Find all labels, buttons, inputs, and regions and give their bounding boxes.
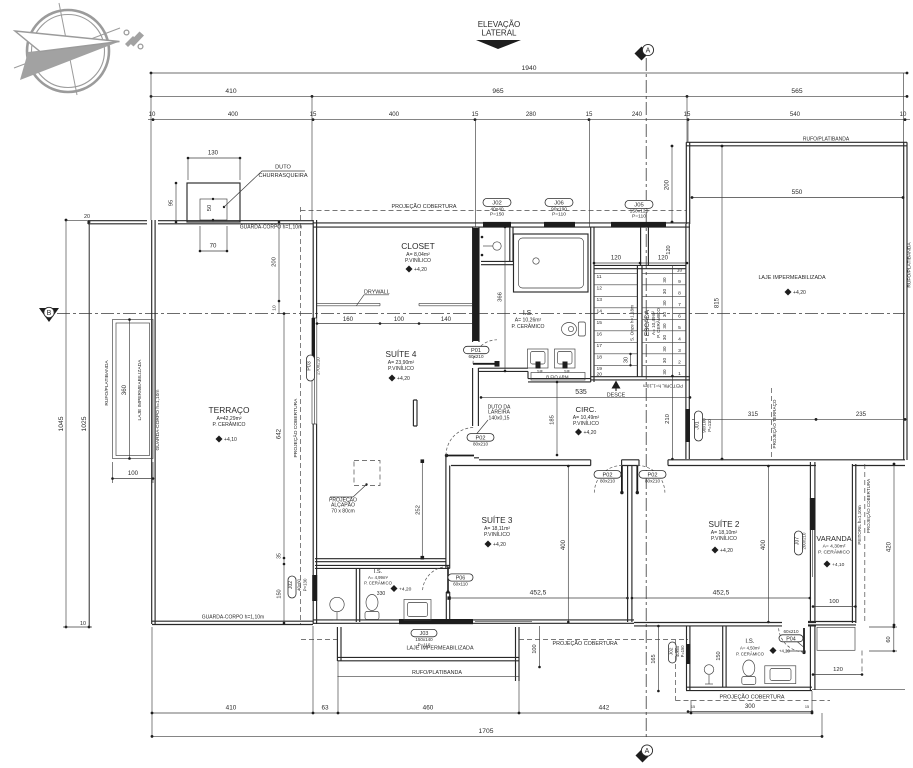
window tag J02	[483, 198, 511, 217]
svg-text:442: 442	[599, 704, 610, 711]
svg-text:P=150: P=150	[680, 645, 685, 658]
svg-text:+4,20: +4,20	[720, 548, 733, 554]
door P02 circ-suite3 alcove: leaf, hinge, arc	[445, 428, 474, 458]
terrace left wall	[152, 220, 155, 624]
svg-text:95: 95	[169, 199, 175, 206]
closet room label	[401, 241, 435, 273]
suite 2 room label	[709, 519, 740, 554]
svg-text:1705: 1705	[479, 728, 494, 735]
bottom IS left wall with window	[687, 626, 690, 690]
terrace top parapet wall	[88, 221, 313, 224]
svg-text:410: 410	[226, 704, 237, 711]
dim 300 bottom IS	[687, 703, 814, 713]
svg-text:35: 35	[277, 553, 283, 559]
svg-text:S. Onze h=1,18m: S. Onze h=1,18m	[630, 305, 635, 341]
svg-text:LAJE IMPERMEABILIZADA: LAJE IMPERMEABILIZADA	[406, 646, 474, 652]
svg-text:565: 565	[791, 88, 802, 95]
bottom IS partition shower	[723, 626, 726, 687]
sink bottom IS	[765, 666, 796, 684]
svg-text:200x210: 200x210	[802, 532, 807, 549]
bottom dim row 1705	[151, 728, 824, 738]
toilet IS suite3	[365, 595, 379, 620]
svg-text:PEITORIL h=1,10m: PEITORIL h=1,10m	[857, 505, 862, 544]
escada labels rotated	[630, 305, 662, 341]
dim 100 below wall	[532, 626, 541, 668]
svg-text:18: 18	[597, 355, 603, 361]
svg-text:J01: J01	[695, 421, 701, 429]
svg-text:P=150: P=150	[490, 212, 505, 218]
dim 70 chimney	[199, 226, 229, 252]
window J06 slab	[544, 222, 575, 228]
svg-text:PROJEÇÃO COBERTURA: PROJEÇÃO COBERTURA	[553, 640, 618, 647]
alcove bottom wall y=562-565	[315, 559, 450, 569]
window J01 on stair wall	[685, 409, 712, 442]
svg-text:452,5: 452,5	[530, 589, 547, 596]
svg-text:90x100: 90x100	[702, 418, 707, 433]
svg-text:RUFO/PLATIBANDA: RUFO/PLATIBANDA	[907, 242, 913, 288]
svg-text:+4,20: +4,20	[493, 542, 506, 548]
stair treads right flight	[642, 273, 686, 365]
svg-text:30: 30	[662, 369, 667, 375]
IS suite3 wall below door	[446, 592, 449, 622]
stair left wall	[591, 227, 594, 382]
svg-text:+4,20: +4,20	[414, 267, 427, 273]
dim 185 circ	[550, 381, 559, 457]
svg-text:CIRC.: CIRC.	[576, 405, 597, 414]
svg-text:A= 10,26m²: A= 10,26m²	[515, 318, 542, 324]
suite 3 room label	[482, 515, 513, 548]
svg-text:DUTO: DUTO	[275, 165, 291, 171]
svg-text:16: 16	[597, 332, 603, 338]
bottom IS right wall	[810, 626, 815, 690]
svg-text:9: 9	[678, 279, 681, 285]
svg-text:210: 210	[665, 413, 671, 424]
svg-text:+4,10: +4,10	[832, 562, 845, 568]
dim 130 chimney	[187, 150, 242, 181]
door P06 arc suite3-IS	[423, 567, 450, 594]
door tag P03 rotated	[307, 355, 321, 381]
I.S. west wall with P01 opening	[473, 227, 479, 426]
svg-text:100: 100	[532, 644, 538, 653]
svg-text:P02: P02	[648, 472, 658, 478]
dim 100 strip bottom	[111, 462, 154, 483]
svg-text:7: 7	[678, 302, 681, 308]
terrace bottom parapet wall	[152, 621, 313, 624]
svg-text:I.S.: I.S.	[523, 310, 533, 317]
svg-text:30: 30	[662, 358, 667, 364]
svg-text:+4,10: +4,10	[224, 437, 237, 443]
svg-text:A= 18,10m²: A= 18,10m²	[711, 530, 738, 536]
svg-text:452,5: 452,5	[713, 589, 730, 596]
stair tread numbers right	[677, 267, 683, 377]
svg-text:LAJE IMPERMEABILIZADA: LAJE IMPERMEABILIZADA	[137, 359, 143, 421]
suite2-suite3 divider wall	[628, 466, 632, 622]
svg-text:CLOSET: CLOSET	[401, 241, 435, 251]
svg-text:RUFO/PLATIBANDA: RUFO/PLATIBANDA	[803, 137, 850, 143]
svg-text:P=110: P=110	[632, 214, 646, 220]
svg-text:P.VINÍLICO: P.VINÍLICO	[711, 535, 737, 542]
central wall y=459-466 segments	[451, 458, 905, 466]
bottom extension lines	[152, 626, 822, 738]
svg-text:P. CERÂMICO: P. CERÂMICO	[655, 308, 661, 338]
window J05 slab	[611, 222, 666, 228]
drywall label + leader	[357, 290, 390, 306]
svg-text:PEITORIL h=1,10m: PEITORIL h=1,10m	[643, 384, 683, 389]
svg-text:400: 400	[389, 111, 400, 118]
svg-text:160: 160	[343, 316, 354, 323]
svg-text:J02: J02	[288, 581, 294, 589]
window J02 slab	[483, 222, 511, 228]
svg-text:965: 965	[492, 88, 503, 95]
svg-text:12: 12	[597, 286, 603, 292]
dim 452,5 suite3	[447, 589, 628, 600]
alçapão dashed box	[329, 461, 380, 515]
door tag P06	[448, 574, 473, 587]
svg-text:40x40: 40x40	[490, 206, 504, 212]
svg-text:J02: J02	[668, 647, 674, 655]
svg-text:A= 4,30m²: A= 4,30m²	[823, 544, 846, 550]
right roof platibanda rect	[686, 142, 907, 460]
svg-text:P=110: P=110	[707, 419, 712, 432]
svg-text:80x210: 80x210	[600, 479, 616, 484]
svg-text:10: 10	[80, 621, 86, 627]
svg-text:J02: J02	[492, 200, 502, 206]
svg-text:3: 3	[678, 348, 681, 354]
svg-text:30: 30	[662, 289, 667, 295]
dim 60 varanda	[869, 626, 897, 653]
svg-text:P.VINÍLICO: P.VINÍLICO	[405, 257, 431, 264]
svg-text:SUÍTE 2: SUÍTE 2	[709, 519, 740, 529]
svg-text:20: 20	[84, 214, 90, 220]
svg-text:280: 280	[526, 111, 537, 118]
svg-text:PROJEÇÃO COBERTURA: PROJEÇÃO COBERTURA	[865, 479, 871, 533]
stair tread numbers left	[597, 274, 603, 377]
svg-text:J06: J06	[554, 200, 564, 206]
svg-text:+4,20: +4,20	[397, 376, 410, 382]
svg-text:252: 252	[415, 505, 421, 515]
projeção terraço dashed + label	[771, 388, 777, 459]
svg-text:A: A	[646, 47, 651, 54]
stair dim 30 small	[624, 353, 632, 367]
dim 100 varanda	[812, 599, 857, 608]
varanda room label	[816, 534, 851, 568]
svg-text:200: 200	[272, 256, 278, 267]
svg-text:P. CERÂMICO: P. CERÂMICO	[212, 421, 245, 428]
suite2 right wall with J07 window	[810, 462, 815, 622]
stair bottom wall	[591, 377, 690, 380]
svg-text:RUFO/PLATIBANDA: RUFO/PLATIBANDA	[412, 670, 462, 676]
svg-text:120: 120	[833, 667, 844, 673]
left roof edge line	[89, 221, 91, 627]
step box below varanda	[817, 627, 855, 650]
svg-text:4: 4	[678, 336, 681, 342]
window tag J05	[625, 200, 653, 219]
projeção cobertura dashed left	[292, 207, 301, 624]
window tag J07 rotated	[795, 531, 807, 555]
svg-text:120: 120	[611, 255, 622, 262]
svg-text:150: 150	[277, 589, 283, 598]
svg-text:400: 400	[228, 111, 239, 118]
svg-text:P.VINÍLICO: P.VINÍLICO	[573, 420, 599, 427]
window tag J06	[545, 198, 573, 217]
laje impermeabilizada strip left	[113, 320, 154, 459]
svg-text:20: 20	[597, 372, 603, 378]
dim 642/15/150 terrace right	[276, 312, 286, 624]
svg-text:1940: 1940	[522, 65, 537, 72]
svg-text:815: 815	[714, 297, 721, 308]
window tag J03	[411, 629, 437, 647]
bottom IS bottom wall	[686, 687, 812, 690]
svg-text:30: 30	[624, 357, 630, 363]
svg-text:GUARDA-CORPO h=1,10m: GUARDA-CORPO h=1,10m	[202, 615, 264, 621]
svg-text:150: 150	[716, 651, 722, 660]
fireplace duct wall	[413, 400, 417, 426]
svg-text:300: 300	[745, 703, 756, 710]
svg-text:15: 15	[691, 705, 695, 709]
svg-text:P. CERÂMICO: P. CERÂMICO	[736, 651, 765, 656]
svg-text:30: 30	[662, 300, 667, 306]
svg-text:I.S.: I.S.	[745, 638, 754, 645]
svg-text:80x210: 80x210	[645, 479, 661, 484]
door P01 leaf and arc	[473, 340, 500, 367]
dim 400 suite3	[560, 465, 570, 624]
IS suite3 room label	[364, 569, 412, 597]
svg-text:VARANDA: VARANDA	[816, 534, 851, 543]
shower box walls	[481, 227, 513, 265]
svg-text:200: 200	[664, 179, 671, 190]
section marker A bottom	[636, 745, 653, 763]
svg-text:410: 410	[225, 88, 236, 95]
svg-text:10: 10	[272, 305, 278, 311]
svg-text:RUFO/PLATIBANDA: RUFO/PLATIBANDA	[104, 360, 110, 406]
svg-text:15: 15	[597, 320, 603, 326]
svg-text:ESCADA: ESCADA	[644, 309, 651, 336]
dim 400 suite2	[760, 465, 770, 624]
svg-text:120: 120	[666, 245, 672, 254]
svg-text:P. CERÂMICO: P. CERÂMICO	[818, 548, 850, 555]
bottom IS suite2: top wall with P04 opening	[634, 623, 816, 626]
svg-text:P=130: P=130	[303, 578, 308, 591]
svg-text:P.VINÍLICO: P.VINÍLICO	[484, 531, 510, 538]
double sinks IS top	[528, 349, 576, 374]
stair dim 120 120	[593, 245, 689, 264]
leader duto churrasqueira	[223, 165, 308, 209]
double doors P02 suite3/suite2: leaves and arcs	[594, 466, 665, 495]
svg-text:SIF: SIF	[564, 370, 571, 374]
door tag P02 suite3	[594, 471, 621, 484]
svg-text:400: 400	[560, 539, 567, 550]
svg-text:80x210: 80x210	[473, 442, 489, 447]
svg-text:460: 460	[423, 704, 434, 711]
svg-text:J07: J07	[795, 537, 801, 545]
svg-text:235: 235	[856, 411, 867, 418]
top dimension row 3: 10 400 15 400 15 280 15 240 15 540 10	[148, 111, 910, 121]
top dimension row 1: 1940	[150, 65, 909, 74]
svg-text:540: 540	[790, 111, 801, 118]
svg-text:GUARDA-CORPO h=1,10m: GUARDA-CORPO h=1,10m	[240, 225, 302, 231]
svg-text:+4,20: +4,20	[584, 430, 597, 436]
stair right wall	[686, 224, 689, 459]
counter shelf IS top	[531, 373, 585, 381]
svg-text:400: 400	[760, 539, 767, 550]
lower laje rect below suite3	[337, 627, 519, 681]
svg-text:SUÍTE 4: SUÍTE 4	[386, 349, 417, 359]
I.S. top room label	[511, 310, 544, 330]
svg-text:70 x 80cm: 70 x 80cm	[331, 508, 355, 514]
svg-text:50: 50	[207, 204, 213, 211]
svg-text:J05: J05	[634, 202, 644, 208]
svg-text:LAJE IMPERMEABILIZADA: LAJE IMPERMEABILIZADA	[758, 275, 826, 281]
shower head circle	[493, 242, 501, 250]
projeção cobertura dashed bottom right	[676, 640, 831, 701]
svg-text:11: 11	[597, 274, 602, 280]
svg-text:B.FIO ARM.: B.FIO ARM.	[546, 375, 569, 380]
terraço room label	[209, 405, 250, 443]
door P04 tag + leaf	[779, 627, 806, 655]
svg-text:+4,20: +4,20	[399, 587, 412, 593]
svg-text:60x110: 60x110	[453, 582, 468, 587]
dim 210 circ right	[665, 375, 674, 461]
svg-text:240: 240	[632, 111, 643, 118]
svg-text:360: 360	[121, 384, 128, 395]
door tag P02 circ	[467, 434, 494, 447]
alcove wall vertical x=446-452	[446, 456, 450, 569]
svg-text:90x190: 90x190	[551, 206, 567, 212]
varanda right parapet	[852, 464, 855, 623]
svg-text:1045: 1045	[58, 416, 65, 431]
svg-text:P03: P03	[307, 361, 313, 371]
section line B horizontal	[39, 307, 905, 322]
svg-text:10: 10	[677, 267, 683, 273]
laje impermeabilizada label right	[758, 275, 826, 296]
projeção cobertura dashed varanda	[865, 464, 871, 623]
svg-text:30: 30	[662, 312, 667, 318]
dim 535 circ	[480, 389, 692, 399]
bottom right exterior line	[812, 689, 905, 691]
house top wall with windows	[313, 223, 690, 227]
svg-text:1025: 1025	[81, 416, 88, 431]
dim 200/10 terrace top right	[272, 221, 281, 314]
svg-text:5: 5	[678, 325, 681, 331]
svg-text:535: 535	[575, 389, 587, 396]
svg-text:140x0,15: 140x0,15	[489, 415, 510, 421]
toilet IS top	[562, 322, 586, 336]
svg-text:P=110: P=110	[552, 212, 566, 218]
svg-text:100: 100	[128, 470, 139, 477]
svg-text:140: 140	[441, 316, 452, 323]
svg-text:PROJEÇÃO COBERTURA: PROJEÇÃO COBERTURA	[292, 398, 299, 458]
svg-text:SUÍTE 3: SUÍTE 3	[482, 515, 513, 525]
suite 4 room label	[386, 349, 417, 382]
svg-text:165: 165	[651, 654, 657, 663]
toilet bottom IS	[742, 660, 756, 685]
stair top landing edge	[594, 265, 686, 268]
svg-text:15: 15	[310, 111, 317, 118]
svg-text:30: 30	[662, 277, 667, 283]
svg-text:TERRAÇO: TERRAÇO	[209, 405, 250, 415]
stair number column line	[672, 265, 674, 377]
svg-text:8: 8	[678, 290, 681, 296]
house left wall with P03 opening and J02 window	[313, 220, 316, 624]
projeção cobertura dashed top	[301, 203, 687, 211]
svg-text:13: 13	[597, 297, 603, 303]
svg-text:P02: P02	[476, 435, 486, 441]
svg-text:420: 420	[886, 541, 893, 552]
svg-text:70: 70	[210, 243, 217, 250]
dim 120 below varanda	[812, 667, 864, 676]
svg-text:30: 30	[662, 346, 667, 352]
svg-text:366: 366	[498, 291, 504, 302]
svg-text:6: 6	[678, 313, 681, 319]
desce arrow	[607, 381, 626, 399]
svg-text:A= 4,50m²: A= 4,50m²	[740, 645, 761, 650]
pedestal fixture IS suite3	[330, 597, 344, 620]
svg-text:CHURRASQUEIRA: CHURRASQUEIRA	[258, 173, 307, 179]
svg-text:2: 2	[678, 359, 681, 365]
svg-text:B: B	[47, 310, 52, 317]
projeção cobertura dashed bottom left	[301, 640, 688, 647]
svg-text:A= 4,99m²: A= 4,99m²	[368, 575, 389, 580]
dim 366	[498, 226, 507, 373]
IS suite3 partition x=356-360	[356, 568, 359, 622]
sliding door P03 lines	[312, 318, 317, 424]
dim 252 alcove	[415, 459, 424, 559]
svg-text:P. CERÂMICO: P. CERÂMICO	[364, 581, 393, 586]
circ room label	[573, 405, 600, 436]
svg-text:1: 1	[678, 371, 681, 377]
window tag J02 bottom IS rotated	[668, 642, 685, 663]
svg-text:15: 15	[805, 705, 809, 709]
varanda bottom wall	[808, 622, 856, 625]
svg-text:60x210: 60x210	[468, 354, 484, 359]
svg-text:14: 14	[597, 309, 603, 315]
svg-text:PROJEÇÃO COBERTURA: PROJEÇÃO COBERTURA	[720, 694, 785, 701]
top dimension row 2: 410 965 565	[150, 88, 909, 98]
svg-text:15: 15	[472, 111, 479, 118]
dim 815 laje right	[714, 145, 724, 461]
door tag P01	[464, 346, 490, 359]
svg-text:A: A	[645, 748, 650, 755]
svg-text:PROJEÇÃO TERRAÇO: PROJEÇÃO TERRAÇO	[771, 399, 777, 448]
svg-text:100: 100	[829, 599, 840, 605]
dim 360 strip	[121, 318, 131, 460]
section line A vertical	[635, 44, 654, 740]
chimney churrasqueira box	[187, 183, 240, 222]
svg-text:P02: P02	[603, 472, 613, 478]
svg-text:185: 185	[550, 414, 556, 425]
dims 315 235 laje bottom	[692, 411, 906, 421]
left dimension 1045	[58, 219, 67, 629]
svg-text:63: 63	[321, 704, 329, 711]
bottom dim row 410 63 460 442 300	[151, 704, 814, 714]
north glyph	[124, 30, 144, 49]
svg-text:A= 18,11m²: A= 18,11m²	[484, 526, 510, 532]
svg-text:P04: P04	[786, 636, 796, 642]
svg-text:30: 30	[662, 323, 667, 329]
compass rose	[14, 3, 120, 95]
svg-text:40x60: 40x60	[297, 578, 302, 591]
svg-text:10: 10	[149, 111, 156, 118]
extension lines from top dims to walls	[151, 73, 904, 227]
svg-text:P.VINÍLICO: P.VINÍLICO	[388, 365, 414, 372]
closet drywall partition	[317, 303, 475, 305]
svg-text:PROJEÇÃO COBERTURA: PROJEÇÃO COBERTURA	[392, 203, 457, 210]
house bottom wall suite3 with window J03	[313, 620, 634, 623]
svg-text:60x210: 60x210	[783, 629, 799, 634]
svg-text:150x120: 150x120	[630, 208, 649, 214]
dim 550 roof	[691, 189, 905, 199]
svg-text:30: 30	[662, 335, 667, 341]
